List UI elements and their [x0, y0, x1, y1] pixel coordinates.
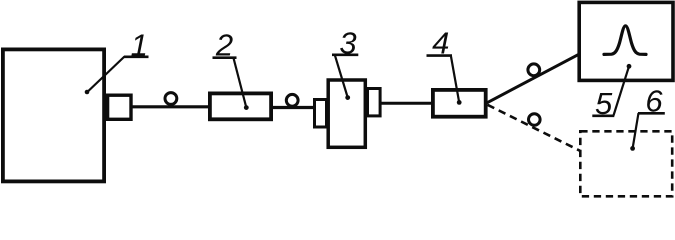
- label 4 leader dot: [457, 100, 462, 105]
- label 4 underline: [427, 54, 453, 57]
- label 3 leader line: [335, 55, 348, 98]
- connector stub on block 1 output: [108, 95, 131, 119]
- label 3 underline: [332, 53, 358, 56]
- label 1 underline: [124, 55, 149, 58]
- block 3 left side tab: [315, 100, 327, 128]
- block 6 (dashed optional box): [580, 131, 672, 196]
- wire: block 3 to block 4: [380, 102, 435, 105]
- solid diagonal wire: block 4 to block 5: [487, 54, 579, 103]
- label 6 leader dot: [630, 146, 635, 151]
- label 1 leader line: [87, 57, 124, 93]
- block 5 (oscilloscope box): [579, 2, 673, 80]
- label 6 underline: [638, 112, 665, 115]
- label 1 leader dot: [85, 90, 90, 95]
- label 5 leader line: [614, 66, 630, 115]
- block 2: [210, 93, 271, 119]
- block 3 right side tab: [368, 89, 381, 116]
- block 4: [433, 90, 486, 117]
- label 2 leader dot: [244, 105, 249, 110]
- block 1 (large source box): [3, 49, 104, 181]
- fiber loop circle on solid diagonal: [528, 64, 540, 76]
- label 5 leader dot: [627, 64, 632, 69]
- label 4 leader line: [451, 57, 459, 103]
- wire: connector to block 2: [131, 105, 210, 108]
- label 6 leader line: [633, 113, 639, 148]
- dashed diagonal wire: block 4 to block 6: [488, 105, 581, 151]
- block 3 main body: [328, 80, 365, 147]
- fiber loop circle between block 2 and block 3: [286, 94, 298, 106]
- fiber loop circle between connector and block 2: [165, 93, 177, 105]
- label 3 leader dot: [345, 95, 350, 100]
- label 2 underline: [213, 56, 237, 59]
- pulse waveform inside block 5: [604, 26, 646, 55]
- wire: block 2 to block 3: [271, 106, 316, 109]
- fiber loop circle on dashed diagonal: [529, 114, 541, 126]
- label 2 leader line: [234, 58, 247, 108]
- label 5 underline: [592, 115, 614, 118]
